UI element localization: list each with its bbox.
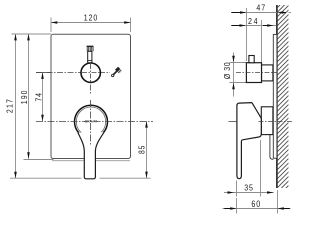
dimension 60 line	[223, 208, 291, 210]
dimension 30 top arrow	[232, 56, 235, 63]
diverter button side	[249, 56, 254, 63]
diverter crosshair horizontal	[82, 72, 100, 74]
dimension 190 top arrow	[27, 34, 30, 41]
extension line plate top left	[12, 33, 52, 35]
dimension 120 extension line right	[130, 18, 132, 33]
dimension 190 bottom arrow	[27, 152, 30, 159]
dimension 35 extension line left	[236, 181, 238, 197]
dimension 60 left extension	[236, 198, 238, 214]
dimension 47 left arrow	[240, 11, 247, 14]
dimension 120 extension line left	[50, 18, 52, 33]
dimension 60 extension line right	[277, 190, 279, 214]
handle center line side view left	[229, 121, 237, 123]
shower icon	[112, 67, 122, 77]
wall hatching	[275, 0, 291, 213]
dimension 74 bottom arrow	[41, 115, 44, 122]
svg-text:74: 74	[34, 92, 44, 101]
dimension 190 line	[28, 34, 30, 159]
dimension 217 bottom arrow	[14, 172, 17, 179]
dimension 74 top tick	[36, 72, 51, 74]
diverter stem tick	[87, 60, 92, 62]
plate lower stub	[270, 135, 274, 159]
dimension 217 line	[15, 34, 17, 178]
dimension 35 extension line right	[260, 140, 262, 197]
side plate	[273, 34, 277, 158]
diverter knurled button	[87, 45, 94, 47]
lever blade outline	[78, 132, 104, 179]
dimension 30 bottom tick	[230, 82, 247, 84]
dimension 60 right arrow	[277, 207, 284, 210]
diverter center line horizontal	[36, 72, 110, 74]
handle inner circle	[76, 107, 105, 136]
diverter stem	[88, 51, 92, 63]
diverter body side	[262, 65, 273, 81]
dimension 24 left arrow	[240, 24, 247, 27]
dimension 35 left arrow	[228, 191, 235, 194]
svg-text:Ø 30: Ø 30	[222, 62, 232, 79]
dimension 35 line	[224, 192, 274, 194]
plate bottom inner edge right	[96, 160, 130, 162]
diverter crosshair vertical	[90, 64, 92, 82]
extension line lever tip right	[100, 177, 151, 179]
dimension 47 extension line	[246, 8, 248, 61]
svg-text:47: 47	[256, 3, 266, 13]
svg-text:217: 217	[5, 98, 15, 113]
dimension 30 bottom arrow	[232, 83, 235, 90]
dimension 24 right arrow	[267, 24, 274, 27]
extension line lever tip left	[10, 177, 82, 179]
dimension 60 left arrow	[230, 207, 237, 210]
svg-text:24: 24	[248, 17, 259, 27]
diverter button knurl lines	[86, 47, 88, 52]
dimension 74 top arrow	[41, 72, 44, 79]
dimension 74 line	[42, 73, 44, 122]
diverter knob side	[246, 63, 261, 83]
dimension 85 bottom arrow	[145, 172, 148, 179]
handle outer circle	[75, 105, 108, 138]
dimension 85 top arrow	[145, 121, 148, 128]
handle body side	[261, 107, 273, 135]
dimension 85 line	[146, 121, 148, 178]
dimension diameter 30 line	[233, 53, 235, 97]
diverter circle	[81, 63, 100, 82]
dimension 35 right arrow	[267, 191, 274, 194]
dimension 30 top tick	[230, 62, 247, 64]
diverter center line side view	[236, 72, 277, 74]
dimension 120 line	[51, 22, 131, 24]
dimension 24 line	[231, 25, 277, 27]
handle center line side view right	[259, 121, 293, 123]
dimension 47 right arrow	[277, 11, 284, 14]
extension line plate bottom 190	[24, 159, 54, 161]
svg-text:190: 190	[19, 89, 29, 104]
handle knob and lever side fill	[237, 103, 261, 179]
dimension 24 extension line	[261, 20, 263, 63]
dimension 120 right arrow	[124, 21, 131, 24]
wall face line	[276, 5, 278, 188]
handle center line horizontal	[36, 121, 153, 123]
svg-text:85: 85	[137, 145, 147, 154]
svg-text:35: 35	[244, 183, 253, 193]
plate bottom inner edge left	[52, 160, 84, 162]
svg-text:120: 120	[84, 13, 98, 23]
handle center line vertical	[90, 100, 92, 146]
diverter center line vertical	[90, 64, 92, 96]
dimension 120 left arrow	[51, 21, 58, 24]
svg-text:60: 60	[251, 199, 261, 209]
dimension 47 line	[231, 12, 277, 14]
handle knob and lever side outline	[237, 103, 261, 179]
front plate	[51, 34, 131, 158]
lever blade fill	[78, 132, 104, 179]
dimension 217 top arrow	[14, 34, 17, 41]
